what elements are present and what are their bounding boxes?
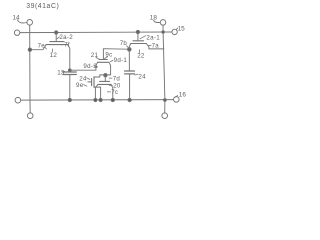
- svg-text:9d-2: 9d-2: [83, 63, 97, 70]
- leader 14: [17, 20, 27, 23]
- capacitor 24 top plate: [125, 70, 135, 72]
- svg-text:13: 13: [57, 70, 65, 77]
- leader 15: [176, 28, 177, 29]
- transistor 7c gate bar: [100, 80, 110, 82]
- top rail: [20, 31, 172, 34]
- node dot gate 2a-1: [136, 30, 139, 33]
- left rail: [29, 25, 32, 113]
- transistor 7c channel: [98, 83, 111, 85]
- transistor 9e gate bar: [91, 79, 93, 86]
- leader 7b: [127, 46, 129, 48]
- svg-text:14: 14: [13, 15, 21, 22]
- transistor 9d gate bar: [99, 59, 107, 61]
- leader 12: [51, 49, 53, 52]
- transistor 9d channel: [98, 61, 109, 63]
- node dot rail 18 stem: [162, 31, 165, 34]
- junction dot 9e bottom: [99, 98, 102, 101]
- node dot cap13 top: [68, 69, 71, 72]
- transistor 9e top leg: [94, 75, 105, 77]
- leader 20: [109, 84, 112, 86]
- node B dot: [104, 74, 107, 77]
- transistor 7c gate lead: [104, 75, 106, 81]
- transistor 2a-2 source leg: [30, 45, 46, 50]
- capacitor 24 bottom plate: [125, 73, 135, 75]
- svg-text:12: 12: [50, 52, 58, 59]
- capacitor 24 bottom lead: [129, 74, 131, 100]
- svg-text:7a: 7a: [152, 43, 160, 50]
- svg-text:39(41aC): 39(41aC): [26, 3, 59, 10]
- transistor 9e channel: [93, 77, 95, 88]
- leader 22: [138, 50, 140, 53]
- transistor 2a-2 channel: [46, 44, 68, 46]
- transistor 2a-1 gate bar: [133, 40, 144, 42]
- junction dot 7c source: [94, 98, 97, 101]
- terminal 18: [160, 20, 166, 26]
- terminal 15: [172, 29, 177, 34]
- bottom rail: [21, 99, 174, 102]
- leader 21: [96, 57, 100, 59]
- transistor 2a-1 source leg: [129, 44, 130, 50]
- capacitor 24 top lead: [128, 49, 130, 71]
- wire cap13 to 9d source: [70, 69, 96, 71]
- leader 24 left: [87, 78, 90, 80]
- right rail: [163, 25, 165, 113]
- leader 13: [62, 70, 65, 73]
- node dot gate 2a-2: [55, 31, 58, 34]
- leader 7c: [107, 91, 110, 93]
- leader 24 right: [135, 73, 138, 76]
- capacitor 13 top plate: [63, 71, 76, 73]
- transistor 2a-2 drain leg: [68, 45, 70, 72]
- capacitor 13 bottom plate: [63, 74, 76, 76]
- junction dot cap13 bottom: [68, 98, 71, 101]
- leader 9e: [84, 85, 87, 87]
- leader 16: [175, 96, 178, 98]
- svg-text:24: 24: [138, 74, 146, 81]
- leader 18: [154, 20, 160, 22]
- transistor 2a-2 gate lead: [55, 33, 57, 42]
- transistor 2a-2 gate bar: [50, 41, 64, 43]
- svg-text:15: 15: [178, 25, 186, 32]
- leader 7f: [62, 43, 65, 46]
- leader 9d-1: [110, 60, 113, 61]
- junction dot right rail bottom: [164, 99, 167, 102]
- leader 7a: [149, 44, 152, 47]
- leader 9d-2: [94, 65, 96, 66]
- svg-text:7e: 7e: [38, 42, 46, 49]
- leader 9c: [104, 57, 107, 59]
- node dot left rail: [28, 48, 31, 51]
- junction dot cap24 bottom: [128, 98, 131, 101]
- svg-text:7c: 7c: [111, 89, 118, 96]
- svg-text:7f: 7f: [64, 42, 70, 49]
- leader 7e: [45, 47, 47, 49]
- terminal 16: [174, 97, 180, 103]
- svg-text:16: 16: [179, 92, 187, 99]
- transistor 2a-1 channel: [131, 43, 147, 45]
- terminal left bottom: [15, 97, 21, 103]
- terminal bottom right: [162, 113, 168, 119]
- transistor 2a-1 gate lead: [137, 32, 139, 41]
- transistor 7c source leg: [95, 84, 98, 100]
- terminal 14: [27, 20, 33, 26]
- terminal bottom left: [27, 113, 33, 119]
- svg-text:2a-2: 2a-2: [59, 34, 73, 41]
- leader 2a-1: [140, 36, 146, 39]
- junction dot 7c drain: [111, 98, 114, 101]
- svg-text:9d-1: 9d-1: [114, 57, 128, 64]
- svg-text:7d: 7d: [113, 75, 120, 82]
- terminal left top: [14, 30, 19, 35]
- svg-text:9e: 9e: [76, 82, 84, 89]
- svg-text:22: 22: [137, 53, 145, 60]
- leader 2a-2: [57, 37, 59, 39]
- leader 7d: [109, 77, 112, 79]
- transistor 9d gate lead: [103, 49, 127, 60]
- transistor 9d source leg: [96, 62, 98, 70]
- transistor 9d drain leg: [105, 62, 110, 75]
- node dot 7b: [128, 48, 132, 52]
- transistor 9e bottom leg: [94, 87, 101, 100]
- svg-text:2a-1: 2a-1: [146, 34, 160, 41]
- transistor 2a-1 drain leg: [146, 44, 164, 49]
- transistor 7c drain leg: [111, 84, 113, 100]
- capacitor 13 bottom lead: [69, 75, 71, 101]
- transistor 9e gate lead: [88, 81, 92, 83]
